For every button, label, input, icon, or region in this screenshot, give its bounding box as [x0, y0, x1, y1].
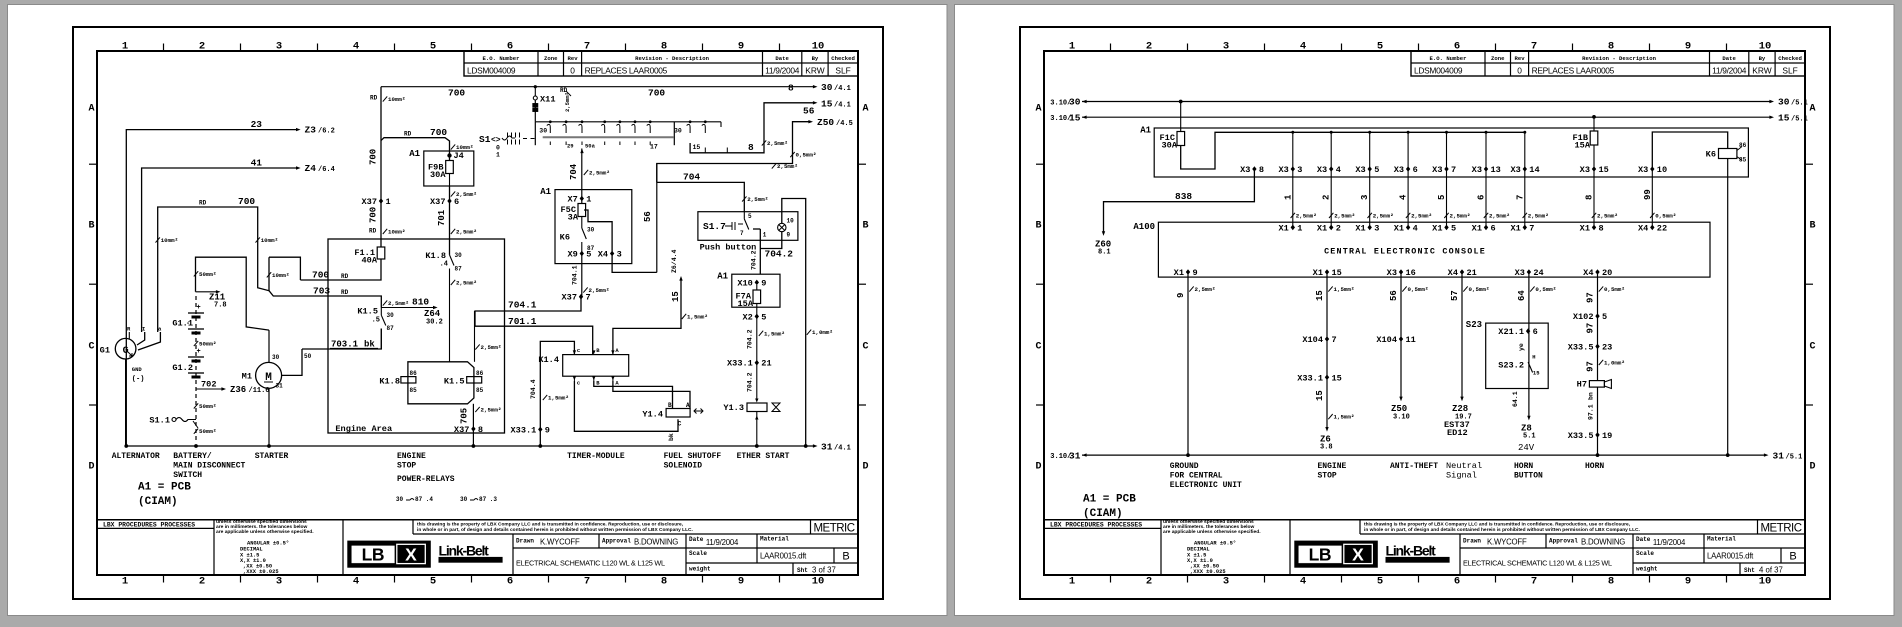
- wire 56 vertical: [656, 164, 658, 273]
- pin X3.15 column: [1592, 166, 1596, 172]
- svg-text:99: 99: [1643, 189, 1653, 200]
- lamp in S1.7: [778, 223, 786, 231]
- svg-text:A: A: [862, 104, 868, 115]
- ignition switch common bar: [543, 136, 674, 138]
- svg-text:this drawing is the property o: this drawing is the property of LBX Comp…: [1364, 522, 1631, 528]
- svg-text:701.1: 701.1: [508, 316, 537, 327]
- wire timer bottom B to Y1.4 B: [594, 381, 673, 409]
- wire 702 to Z36/11.6: [196, 388, 222, 390]
- page inner border frame: [1044, 51, 1805, 575]
- svg-text:50a: 50a: [585, 143, 596, 150]
- wire 704.1 from X9.5: [581, 254, 583, 297]
- svg-text:85: 85: [476, 387, 484, 394]
- svg-text:10mm²: 10mm²: [261, 237, 278, 244]
- svg-text:MAIN DISCONNECT: MAIN DISCONNECT: [173, 462, 245, 471]
- engine area box: [328, 239, 505, 433]
- wire timer bottom c bk return: [574, 381, 678, 431]
- node X104.11: [1399, 336, 1403, 342]
- svg-text:X3: X3: [1355, 165, 1365, 175]
- svg-text:.5: .5: [372, 317, 380, 325]
- svg-text:Rev: Rev: [568, 55, 579, 62]
- svg-text:40A: 40A: [362, 256, 378, 266]
- svg-text:K6: K6: [560, 233, 570, 243]
- svg-text:3: 3: [276, 576, 282, 588]
- svg-text:11: 11: [1406, 335, 1416, 345]
- svg-text:ENGINE: ENGINE: [1318, 462, 1347, 471]
- svg-text:5: 5: [430, 576, 436, 588]
- svg-text:700: 700: [312, 269, 329, 280]
- A1 PCB box: [1154, 128, 1748, 177]
- svg-text:2,5mm²: 2,5mm²: [1528, 212, 1549, 219]
- svg-text:HORN: HORN: [1514, 462, 1533, 471]
- svg-text:30: 30: [539, 128, 547, 135]
- wire segment box2 top: [269, 257, 300, 280]
- ground bus 31/4.1: [125, 445, 814, 447]
- svg-text:A: A: [686, 402, 690, 409]
- svg-text:Date: Date: [1722, 55, 1736, 62]
- svg-text:Scale: Scale: [1636, 550, 1654, 557]
- svg-text:Z36: Z36: [230, 385, 246, 395]
- svg-text:REPLACES LAAR0005: REPLACES LAAR0005: [585, 66, 668, 76]
- pin X3.10 column: [1650, 166, 1654, 172]
- svg-text:Drawn: Drawn: [1463, 538, 1481, 545]
- svg-text:56: 56: [643, 211, 653, 222]
- svg-text:B: B: [668, 402, 672, 409]
- svg-text:30: 30: [460, 496, 468, 503]
- svg-text:1,5mm²: 1,5mm²: [764, 330, 785, 337]
- svg-text:H: H: [1532, 354, 1535, 361]
- svg-text:(-): (-): [132, 376, 145, 384]
- svg-text:Z64: Z64: [424, 309, 441, 319]
- svg-text:G1.1: G1.1: [172, 318, 193, 328]
- pin X3.8 column: [1252, 166, 1256, 172]
- svg-text:Scale: Scale: [689, 550, 707, 557]
- svg-text:1: 1: [1069, 576, 1075, 588]
- svg-text:2,5mm²: 2,5mm²: [564, 92, 571, 112]
- svg-text:9: 9: [1176, 293, 1186, 298]
- svg-text:0,5mm²: 0,5mm²: [1408, 286, 1429, 293]
- svg-text:are applicable unless otherwis: are applicable unless otherwise specifie…: [216, 529, 314, 535]
- svg-text:1: 1: [496, 152, 500, 159]
- svg-text:4: 4: [1399, 194, 1409, 200]
- wire 700 main vertical: [380, 87, 382, 247]
- svg-text:2,5mm²: 2,5mm²: [1195, 286, 1216, 293]
- svg-text:703: 703: [313, 285, 330, 296]
- svg-text:0,5mm²: 0,5mm²: [1535, 286, 1556, 293]
- svg-text:A1: A1: [717, 272, 728, 282]
- svg-text:20: 20: [1602, 268, 1612, 278]
- ether start valve Y1.3: [755, 399, 758, 403]
- svg-text:15: 15: [1315, 290, 1325, 301]
- svg-text:/6.2: /6.2: [318, 128, 335, 136]
- svg-text:3: 3: [276, 41, 282, 53]
- svg-text:LAAR0015.dft: LAAR0015.dft: [1707, 552, 1754, 561]
- svg-text:6: 6: [454, 197, 459, 207]
- svg-text:METRIC: METRIC: [1760, 523, 1801, 535]
- wire 838 to Z60: [1104, 169, 1255, 232]
- svg-text:4 of 37: 4 of 37: [1759, 566, 1783, 575]
- svg-text:704.1: 704.1: [572, 265, 579, 285]
- svg-text:A1: A1: [1140, 126, 1151, 136]
- svg-text:64.1: 64.1: [1512, 391, 1519, 407]
- svg-text:J4: J4: [454, 151, 464, 161]
- column ruler ticks: [163, 44, 165, 52]
- svg-text:in whole or in part, of design: in whole or in part, of design and detai…: [1364, 527, 1640, 533]
- svg-text:B: B: [1035, 221, 1041, 232]
- svg-text:(CIAM): (CIAM): [138, 496, 178, 508]
- svg-text:1: 1: [763, 231, 767, 238]
- wire F5C branch to X4.3: [584, 210, 612, 254]
- svg-text:X3: X3: [1580, 165, 1590, 175]
- wire 701 vertical: [449, 186, 451, 255]
- svg-text:1: 1: [586, 195, 591, 205]
- svg-text:21: 21: [761, 359, 771, 369]
- svg-text:STOP: STOP: [1318, 472, 1337, 481]
- wire K6 to ground bus: [1727, 159, 1729, 456]
- timer module top pins: [573, 350, 576, 354]
- node Z11 reference arrow: [196, 291, 217, 293]
- svg-text:4: 4: [1336, 165, 1341, 175]
- svg-text:Revision - Description: Revision - Description: [635, 55, 709, 62]
- svg-text:B: B: [1789, 551, 1796, 563]
- node X2.5: [755, 314, 759, 320]
- relay contact K1.5 .5: [380, 308, 382, 316]
- svg-text:ALTERNATOR: ALTERNATOR: [112, 452, 160, 461]
- relay contact K6: [581, 217, 583, 229]
- svg-text:8: 8: [748, 142, 754, 153]
- svg-text:(CIAM): (CIAM): [1083, 508, 1123, 520]
- svg-text:RD: RD: [199, 200, 207, 207]
- svg-text:8: 8: [1259, 165, 1264, 175]
- svg-text:X37: X37: [362, 197, 377, 207]
- svg-text:C: C: [88, 342, 94, 353]
- wire K1.5 coil feed: [474, 311, 476, 362]
- svg-text:15: 15: [1332, 373, 1342, 383]
- svg-text:D: D: [1035, 462, 1041, 473]
- svg-text:30A: 30A: [430, 170, 446, 180]
- svg-text:8: 8: [661, 576, 667, 588]
- svg-text:S1.1: S1.1: [149, 415, 170, 425]
- svg-text:weight: weight: [1636, 566, 1658, 573]
- svg-text:Signal: Signal: [1446, 471, 1477, 481]
- svg-text:Drawn: Drawn: [516, 538, 534, 545]
- svg-text:30.2: 30.2: [426, 319, 443, 327]
- wire 703.1 bk: [302, 329, 381, 350]
- svg-text:50mm²: 50mm²: [199, 341, 216, 348]
- svg-text:9: 9: [738, 576, 744, 588]
- svg-text:Z3: Z3: [305, 125, 317, 136]
- svg-text:G1: G1: [100, 346, 110, 356]
- svg-text:3: 3: [617, 250, 622, 260]
- svg-text:8: 8: [1599, 223, 1604, 233]
- alternator pin I: [137, 332, 145, 345]
- svg-text:X3: X3: [1432, 165, 1442, 175]
- svg-text:KRW: KRW: [1752, 66, 1771, 76]
- wire 41 to Z4/6.4: [142, 168, 297, 332]
- svg-text:31: 31: [1773, 450, 1785, 461]
- svg-text:X104: X104: [1302, 335, 1323, 345]
- svg-text:S23.2: S23.2: [1498, 361, 1524, 371]
- svg-text:X10: X10: [737, 278, 752, 288]
- svg-text:2,5mm²: 2,5mm²: [589, 287, 610, 294]
- svg-text:2,5mm²: 2,5mm²: [747, 196, 768, 203]
- svg-text:Material: Material: [760, 536, 789, 543]
- svg-text:G: G: [123, 346, 129, 357]
- page 2 paper: [955, 5, 1895, 616]
- LBX logo: [348, 541, 431, 567]
- page 1 paper: [8, 5, 948, 616]
- svg-text:10: 10: [787, 218, 795, 225]
- svg-text:LDSM004009: LDSM004009: [467, 66, 516, 76]
- svg-text:31: 31: [1069, 450, 1081, 461]
- svg-text:X4: X4: [1638, 223, 1648, 233]
- timer module K1.4: [563, 355, 629, 377]
- neutral signal column X4.21: [1460, 269, 1464, 275]
- svg-text:Engine Area: Engine Area: [335, 424, 392, 434]
- svg-text:15: 15: [1315, 390, 1325, 401]
- svg-text:50mm²: 50mm²: [199, 428, 216, 435]
- wire segment horizontal y257 left: [196, 257, 270, 330]
- title block outline: [1044, 519, 1805, 521]
- svg-text:X4: X4: [1448, 268, 1458, 278]
- svg-text:85: 85: [1739, 157, 1747, 164]
- svg-text:4: 4: [1300, 41, 1306, 53]
- svg-text:704.2: 704.2: [747, 372, 754, 392]
- switch contact S1.7: [743, 212, 745, 219]
- svg-text:5: 5: [1374, 165, 1379, 175]
- svg-text:X21.1: X21.1: [1498, 327, 1524, 337]
- svg-text:K1.8: K1.8: [379, 376, 400, 386]
- svg-text:57: 57: [1450, 290, 1460, 301]
- revision table: [464, 51, 858, 76]
- svg-text:K1.5: K1.5: [444, 376, 465, 386]
- A1 box with F5C and K6: [555, 190, 632, 264]
- svg-text:Zone: Zone: [1491, 55, 1505, 62]
- svg-text:3: 3: [1223, 41, 1229, 53]
- svg-text:X33.1: X33.1: [511, 425, 537, 435]
- svg-text:S1: S1: [479, 134, 491, 145]
- node X9.5: [580, 251, 584, 257]
- svg-text:A1 = PCB: A1 = PCB: [138, 482, 191, 494]
- svg-text:5: 5: [430, 41, 436, 53]
- svg-text:24V: 24V: [1518, 443, 1535, 453]
- svg-text:30: 30: [396, 496, 404, 503]
- svg-text:ELECTRICAL SCHEMATIC L120 WL &: ELECTRICAL SCHEMATIC L120 WL & L125 WL: [1463, 559, 1612, 568]
- svg-text:Z6/4.4: Z6/4.4: [671, 249, 678, 273]
- svg-text:87 .4: 87 .4: [415, 496, 433, 503]
- svg-text:A1 = PCB: A1 = PCB: [1083, 494, 1136, 506]
- svg-text:7: 7: [1451, 165, 1456, 175]
- wire 704.2 to Y1.3: [756, 363, 758, 399]
- svg-text:X3: X3: [1510, 165, 1520, 175]
- svg-text:S1.7: S1.7: [703, 221, 726, 232]
- svg-text:S23: S23: [1466, 320, 1482, 330]
- svg-text:K.WYCOFF: K.WYCOFF: [540, 538, 580, 547]
- svg-text:X37: X37: [562, 293, 577, 303]
- svg-text:30: 30: [1778, 97, 1790, 108]
- alternator G1: [115, 338, 136, 359]
- svg-text:B.DOWNING: B.DOWNING: [1581, 538, 1625, 547]
- svg-text:7: 7: [1515, 195, 1525, 200]
- svg-text:0: 0: [1517, 66, 1522, 76]
- svg-text:C: C: [1809, 342, 1815, 353]
- wire 810 to Z64: [381, 307, 433, 309]
- svg-text:0,5mm²: 0,5mm²: [796, 152, 817, 159]
- svg-text:GROUND: GROUND: [1170, 462, 1199, 471]
- svg-text:11/9/2004: 11/9/2004: [1712, 66, 1747, 76]
- svg-text:RD: RD: [370, 95, 378, 102]
- wire 704.2 to X33.1-21: [756, 316, 758, 362]
- wire 8 terminal 15 bracket: [690, 103, 813, 153]
- svg-text:4: 4: [1300, 576, 1306, 588]
- svg-text:0: 0: [496, 145, 500, 152]
- svg-text:/5.1: /5.1: [1786, 453, 1803, 461]
- svg-text:0,5mm²: 0,5mm²: [1655, 212, 1676, 219]
- svg-text:2: 2: [199, 41, 205, 53]
- svg-text:7: 7: [1531, 576, 1537, 588]
- node X104.7: [1325, 336, 1329, 342]
- row ruler ticks: [1036, 163, 1044, 165]
- svg-text:2,5mm²: 2,5mm²: [1411, 212, 1432, 219]
- svg-text:A: A: [1035, 104, 1041, 115]
- svg-text:11/9/2004: 11/9/2004: [1653, 538, 1686, 547]
- ground column X1.9: [1186, 269, 1190, 275]
- svg-text:c: c: [577, 347, 580, 354]
- svg-text:X1: X1: [1313, 268, 1323, 278]
- svg-text:5.1: 5.1: [1523, 433, 1536, 441]
- wire X4.3 down to 56: [612, 254, 657, 273]
- svg-text:A: A: [1809, 104, 1815, 115]
- svg-text:31: 31: [276, 383, 284, 390]
- svg-text:/6.4: /6.4: [318, 166, 335, 174]
- svg-text:REPLACES LAAR0005: REPLACES LAAR0005: [1532, 66, 1615, 76]
- node X37.6: [447, 198, 451, 204]
- svg-text:15: 15: [1599, 165, 1609, 175]
- A1 box with F7A: [732, 274, 780, 307]
- pin X3.6 column: [1407, 132, 1409, 169]
- svg-text:METRIC: METRIC: [813, 523, 854, 535]
- svg-text:50mm²: 50mm²: [199, 271, 216, 278]
- svg-text:X11: X11: [540, 95, 555, 105]
- svg-text:1: 1: [1297, 223, 1302, 233]
- svg-text:X3: X3: [1472, 165, 1482, 175]
- svg-text:B: B: [1809, 221, 1815, 232]
- svg-text:ye: ye: [1518, 343, 1525, 351]
- svg-text:10: 10: [1759, 576, 1772, 588]
- svg-text:5: 5: [1602, 312, 1607, 322]
- svg-text:30: 30: [272, 354, 280, 361]
- wire 56 to Z50/4.5: [657, 122, 809, 183]
- svg-text:/5.1: /5.1: [1791, 100, 1808, 108]
- horn column X4.20: [1595, 269, 1599, 275]
- svg-text:bk: bk: [668, 433, 675, 441]
- svg-text:By: By: [812, 55, 819, 62]
- wire 50 starter solenoid: [282, 349, 303, 375]
- svg-text:Material: Material: [1707, 536, 1736, 543]
- svg-text:.4: .4: [440, 261, 448, 269]
- svg-text:2,5mm²: 2,5mm²: [777, 163, 798, 170]
- svg-text:RD: RD: [404, 131, 412, 138]
- svg-text:K1.4: K1.4: [538, 355, 559, 365]
- svg-text:5: 5: [1377, 576, 1383, 588]
- svg-text:704.2: 704.2: [750, 250, 757, 270]
- svg-text:SOLENOID: SOLENOID: [664, 462, 703, 471]
- wire timer bottom A to Y1.4 A: [613, 381, 690, 409]
- node X33.1-9: [538, 427, 542, 433]
- svg-text:c: c: [577, 380, 580, 387]
- svg-text:9: 9: [1193, 268, 1198, 278]
- svg-text:2: 2: [1336, 223, 1341, 233]
- svg-text:87 .3: 87 .3: [479, 496, 497, 503]
- svg-text:ED12: ED12: [1447, 428, 1468, 438]
- svg-text:2,5mm²: 2,5mm²: [1296, 212, 1317, 219]
- svg-text:X3: X3: [1387, 268, 1397, 278]
- svg-text:30: 30: [1069, 97, 1081, 108]
- wire 704 horizontal: [657, 182, 745, 211]
- svg-text:50: 50: [304, 353, 312, 360]
- node X4.3: [610, 251, 614, 257]
- svg-text:13: 13: [1491, 165, 1501, 175]
- svg-text:15: 15: [821, 98, 833, 109]
- wire timer A to Z6/4.4: [613, 280, 681, 355]
- node X33.5-23: [1595, 344, 1599, 350]
- svg-text:POWER-RELAYS: POWER-RELAYS: [397, 475, 455, 484]
- svg-text:B: B: [88, 221, 94, 232]
- svg-text:6: 6: [507, 576, 513, 588]
- svg-text:56: 56: [803, 106, 815, 117]
- horn H7: [1589, 381, 1604, 388]
- svg-text:,XXX ±0.025: ,XXX ±0.025: [1190, 569, 1226, 575]
- connector X11: [533, 96, 537, 100]
- svg-text:STOP: STOP: [397, 462, 416, 471]
- svg-text:STARTER: STARTER: [255, 452, 289, 461]
- starter M1: [256, 362, 282, 388]
- svg-text:1,5mm²: 1,5mm²: [548, 395, 569, 402]
- horn button column X3.24: [1527, 269, 1531, 275]
- svg-text:/4.1: /4.1: [834, 85, 851, 93]
- relay box power-relays: [408, 362, 474, 404]
- svg-text:1: 1: [1069, 41, 1075, 53]
- svg-text:7: 7: [586, 293, 591, 303]
- fuse F1.1 40A: [377, 247, 385, 259]
- svg-text:BATTERY/: BATTERY/: [173, 452, 212, 461]
- svg-text:9: 9: [1685, 576, 1691, 588]
- svg-text:7: 7: [1529, 223, 1534, 233]
- svg-text:1: 1: [1283, 194, 1293, 200]
- svg-text:3: 3: [1360, 195, 1370, 200]
- node X33.5-19: [1595, 432, 1599, 438]
- svg-text:X3: X3: [1317, 165, 1327, 175]
- svg-text:LB: LB: [1309, 545, 1331, 565]
- svg-text:10mm²: 10mm²: [456, 144, 473, 151]
- svg-text:Z50: Z50: [817, 117, 834, 128]
- svg-text:1,5mm²: 1,5mm²: [1334, 414, 1355, 421]
- svg-text:10: 10: [812, 576, 825, 588]
- wire to X2.5: [756, 285, 758, 290]
- svg-text:14: 14: [1529, 165, 1539, 175]
- svg-text:86: 86: [410, 370, 418, 377]
- battery cable gauge labels: [194, 341, 198, 346]
- svg-text:B.DOWNING: B.DOWNING: [634, 538, 678, 547]
- svg-text:Sht: Sht: [1744, 567, 1755, 574]
- svg-text:SWITCH: SWITCH: [173, 471, 202, 480]
- svg-text:30: 30: [387, 312, 395, 319]
- svg-text:LBX PROCEDURES PROCESSES: LBX PROCEDURES PROCESSES: [103, 521, 195, 528]
- svg-text:700: 700: [448, 88, 465, 99]
- svg-text:X33.5: X33.5: [1568, 431, 1594, 441]
- svg-text:704: 704: [569, 163, 579, 180]
- svg-text:I: I: [142, 326, 145, 333]
